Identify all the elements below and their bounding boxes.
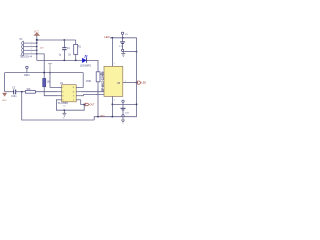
- wire y104.4: [112, 103, 136, 105]
- junction gnd flag: [49, 72, 51, 74]
- junction y104.4 left: [112, 104, 114, 106]
- wire bottom right y116.7: [94, 117, 136, 120]
- wire U1 gnd loop: [56, 100, 84, 110]
- wire U1 pin R3 to LS1: [81, 95, 104, 96]
- ground arrow (navy): [62, 110, 66, 119]
- junction right rail B1: [136, 51, 138, 53]
- terminal OUT arrow (red): [85, 103, 89, 106]
- svg-text:4: 4: [31, 52, 32, 54]
- battery B2: [121, 100, 130, 117]
- svg-text:LED: LED: [104, 35, 109, 39]
- svg-text:OUT: OUT: [90, 105, 95, 107]
- battery B1: [119, 32, 128, 51]
- junction right rail y104.4: [136, 104, 138, 106]
- ground flag B2 (tan): [121, 117, 125, 123]
- svg-text:10K: 10K: [47, 82, 52, 84]
- svg-text:0v: 0v: [63, 118, 65, 120]
- junction P1 pin4: [36, 53, 37, 54]
- svg-text:LED-BIRG: LED-BIRG: [80, 65, 91, 68]
- junction B1 top: [122, 37, 124, 39]
- junction P1 pin1: [36, 42, 37, 43]
- svg-text:LED: LED: [142, 83, 147, 85]
- svg-text:12V: 12V: [40, 47, 44, 49]
- wire LED to R2: [87, 60, 98, 71]
- svg-text:1K: 1K: [68, 54, 71, 56]
- junction LS1 bottom rail: [112, 116, 114, 118]
- ground flag (tan): [48, 63, 52, 72]
- resistor R3 (inline): [25, 89, 35, 93]
- P1 pin numbers: [31, 41, 32, 54]
- LED D1: [80, 55, 91, 67]
- junction C1 bottom: [64, 60, 66, 62]
- wire LS1 top pin: [111, 38, 113, 67]
- capacitor C3 (inline): [11, 88, 17, 98]
- svg-text:GND: GND: [2, 100, 7, 102]
- wire top rail: [37, 39, 76, 41]
- resistor R1: [68, 40, 81, 60]
- junction gnd arrow: [64, 109, 66, 111]
- svg-text:2: 2: [31, 45, 32, 47]
- svg-text:10K: 10K: [26, 89, 31, 91]
- svg-text:3: 3: [114, 99, 115, 101]
- wire pin4 branch down: [37, 54, 44, 79]
- svg-text:TBLOCK-I4: TBLOCK-I4: [20, 55, 33, 58]
- capacitor C1: [59, 40, 71, 60]
- wire gnd junction to U1 pin1: [50, 73, 58, 88]
- wire left rail down + bottom rail: [22, 92, 95, 120]
- wire U1 pin R4 out: [81, 100, 85, 105]
- junction R1 bottom: [75, 60, 77, 62]
- svg-text:1.5V: 1.5V: [119, 46, 124, 48]
- junction right rail LS1: [136, 82, 138, 84]
- junction VCC node: [36, 39, 38, 41]
- svg-text:C3: C3: [12, 88, 16, 90]
- wire C3 to R3: [16, 91, 26, 93]
- junction P1 pin3: [36, 50, 37, 51]
- svg-text:3: 3: [31, 49, 32, 51]
- junction left rail: [21, 91, 23, 93]
- wire rail corner to pin R1: [81, 73, 84, 88]
- wire right rail: [136, 38, 138, 117]
- wire R5 to U1 pin: [44, 87, 57, 96]
- resistor R2: [86, 72, 105, 83]
- wire rail y72.6: [5, 72, 84, 74]
- junction R2 chain: [97, 116, 99, 118]
- svg-text:R1: R1: [78, 47, 82, 49]
- wire y91.9 left: [5, 91, 14, 93]
- wire VCC bus: [36, 40, 38, 60]
- wire LS1 right pin: [123, 82, 137, 84]
- terminal circle: [26, 66, 28, 68]
- power flag VCC: [34, 29, 40, 40]
- wire terminal stub: [26, 69, 28, 73]
- wire mid rail y60.4: [37, 59, 82, 61]
- svg-text:B1: B1: [125, 34, 127, 36]
- svg-text:P1: P1: [20, 38, 24, 41]
- svg-text:VO1: VO1: [100, 116, 105, 118]
- svg-text:470R: 470R: [86, 81, 92, 83]
- wire R2 down: [97, 82, 99, 117]
- svg-text:C1: C1: [67, 48, 71, 50]
- svg-text:1.5V: 1.5V: [125, 113, 130, 115]
- junction LS1 top: [112, 37, 114, 39]
- terminal LED arrow (red): [138, 81, 141, 84]
- wire U1 pin R2 to LS1: [81, 91, 104, 93]
- ground flag B1 (tan): [121, 52, 125, 57]
- junction OUT: [83, 104, 85, 106]
- wire R3 to U1: [35, 91, 57, 93]
- svg-text:8d: 8d: [63, 105, 65, 107]
- svg-text:2: 2: [125, 81, 126, 83]
- U1 pin numbers: [62, 87, 74, 101]
- resistor R5 (blue): [43, 78, 52, 86]
- ground flag 2 (tan): [2, 93, 6, 96]
- svg-text:100n: 100n: [11, 96, 17, 98]
- component LS1 (tall box): [101, 66, 123, 96]
- svg-text:SP-BUZ-12VD8: SP-BUZ-12VD8: [101, 71, 105, 91]
- wire LS1 bottom pin: [111, 96, 113, 116]
- svg-text:16Bd: 16Bd: [24, 75, 30, 77]
- svg-text:1: 1: [114, 63, 115, 65]
- connector P1: [22, 41, 24, 56]
- svg-text:1: 1: [31, 41, 32, 43]
- junction C1 top: [64, 39, 66, 41]
- junction P1 pin2: [36, 46, 37, 47]
- wire B1 bottom: [123, 51, 137, 53]
- IC U1 555 body: [58, 85, 81, 102]
- svg-text:1u: 1u: [59, 54, 62, 56]
- P1 pin wires: [23, 43, 36, 54]
- wire left drop: [4, 73, 6, 92]
- junction R5 branch: [43, 72, 45, 74]
- wire LED net: [110, 37, 137, 39]
